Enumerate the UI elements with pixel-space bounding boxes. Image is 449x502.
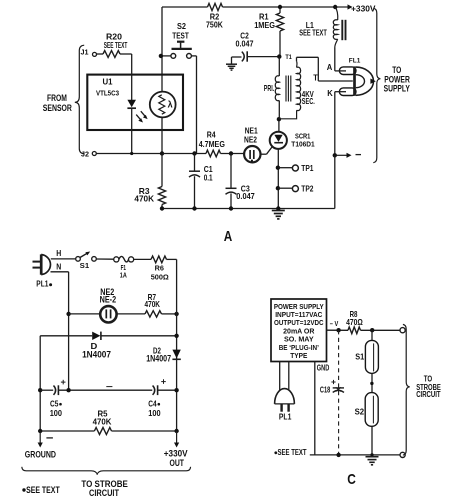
svg-text:N: N [56, 261, 61, 271]
node -V junction [336, 328, 340, 332]
node C1 bottom [192, 206, 196, 210]
label S1 C [355, 352, 364, 361]
svg-text:FL1: FL1 [349, 57, 361, 64]
label SEE TEXT C [274, 448, 306, 457]
svg-text:J1: J1 [81, 48, 89, 57]
label NE1 NE2 [244, 126, 258, 144]
polarity dash mark [106, 386, 112, 388]
label TEST [172, 30, 189, 40]
svg-text:SEE TEXT: SEE TEXT [104, 40, 128, 50]
svg-text:SEE TEXT: SEE TEXT [299, 28, 327, 38]
brace FROM SENSOR [75, 45, 84, 154]
label D2 1N4007 [146, 345, 171, 363]
arrow GROUND [38, 431, 43, 448]
svg-text:T106D1: T106D1 [291, 139, 315, 148]
terminal circle top [400, 328, 405, 333]
svg-text:470Ω: 470Ω [346, 317, 363, 327]
wire bottom rail section A [162, 208, 335, 210]
label R3 value [134, 186, 154, 204]
svg-text:500Ω: 500Ω [151, 273, 169, 282]
svg-text:CIRCUIT: CIRCUIT [89, 488, 119, 498]
node between tubes [370, 382, 373, 385]
wire R4 to NE1 [221, 153, 245, 155]
wire -V out [327, 329, 349, 331]
wire H to S1 [51, 258, 76, 260]
wire SCR anode up [278, 119, 280, 132]
connector J1 [81, 48, 97, 57]
LED light emission arrows [136, 111, 147, 122]
photocell of U1 [150, 92, 176, 118]
svg-text:TYPE: TYPE [290, 351, 307, 360]
label minus ground [46, 437, 53, 439]
brace to power supply [373, 8, 380, 162]
label power supply text [274, 302, 324, 360]
label S1 [80, 261, 90, 270]
wire F1 to R6 [134, 258, 151, 260]
connector J2 [81, 149, 96, 158]
label FL1 [349, 57, 361, 64]
svg-text:TO: TO [392, 65, 401, 75]
svg-text:GND: GND [317, 364, 330, 373]
wire SCR cathode down [277, 149, 279, 209]
node S1 top junction [370, 328, 374, 332]
label section A [224, 228, 233, 245]
svg-text:CIRCUIT: CIRCUIT [416, 389, 441, 399]
label A terminal [327, 62, 333, 72]
svg-text:– V: – V [330, 321, 339, 328]
label SEE TEXT B [22, 485, 60, 495]
svg-text:C18: C18 [320, 385, 331, 394]
svg-text:H: H [56, 248, 61, 258]
node photocell-R3 junction [160, 151, 164, 155]
svg-text:VTL5C3: VTL5C3 [96, 91, 119, 98]
node R4-C3 junction [229, 151, 233, 155]
svg-text:A: A [327, 62, 333, 72]
svg-text:470K: 470K [93, 416, 112, 426]
svg-text:+330V: +330V [351, 3, 376, 13]
label PL1 C [279, 411, 292, 421]
label L1 SEE TEXT [299, 20, 327, 38]
svg-text:1N4007: 1N4007 [82, 349, 111, 359]
wire top rail section A [162, 6, 337, 8]
node C1 top junction [192, 151, 196, 155]
label PRI [264, 83, 275, 93]
svg-text:C: C [347, 472, 356, 488]
label R4 value [199, 130, 225, 150]
thyristor SCR1 [270, 132, 287, 149]
wire S1 to S2 tube [371, 373, 373, 392]
wire R8 to terminal [361, 329, 401, 331]
svg-text:R6: R6 [155, 264, 164, 273]
wire sensor row to R4 [162, 153, 206, 155]
resistor R5 [94, 428, 111, 435]
resistor R7 [145, 311, 162, 317]
flashtube FL1 tip [370, 79, 375, 84]
label S2 C [355, 408, 365, 417]
svg-text:OUT: OUT [170, 458, 185, 469]
label 4KV SEC [302, 89, 315, 106]
wire plug leads C [280, 362, 289, 391]
resistor R2 [208, 3, 223, 10]
wire NE1 to SCR gate [261, 147, 273, 154]
node rail NE2 junction [174, 312, 178, 316]
label TO STROBE CIRCUIT B [81, 479, 127, 498]
capacitor C2 [232, 51, 280, 61]
wire left vertical from top rail to photocell [161, 7, 163, 92]
label R2 value [206, 11, 223, 29]
node R3 bottom [160, 206, 164, 210]
node rail D junction [174, 334, 178, 338]
label C1 value [204, 164, 213, 182]
wire negative down to ground rail [334, 155, 336, 208]
svg-text:NE2: NE2 [244, 135, 258, 144]
switch S1 [76, 252, 97, 262]
svg-text:0.1: 0.1 [204, 172, 213, 182]
flashtube FL1 envelope inner [356, 75, 365, 88]
resistor R8 [348, 327, 361, 334]
node +330 corner [174, 429, 178, 433]
label -V [330, 321, 339, 328]
label section C [347, 472, 356, 488]
polarity plus C5 [61, 380, 66, 385]
wire NE2 row left [69, 313, 101, 315]
wire R20 down to LED [131, 54, 133, 100]
node C3 bottom [229, 206, 233, 210]
svg-text:1MEG: 1MEG [254, 20, 275, 30]
label C2 value [236, 30, 254, 48]
ground section C [366, 457, 379, 465]
capacitor C3 [226, 154, 237, 209]
wire S2 to C1 node [196, 56, 198, 154]
svg-text:PL1: PL1 [279, 411, 292, 421]
wire R6 to right rail [167, 258, 177, 260]
dashed negative line [338, 330, 340, 455]
brace to strobe circuit C [403, 324, 410, 455]
photo tube S2 [365, 393, 378, 427]
wire C5 row left [40, 389, 53, 391]
brace to strobe circuit B [22, 467, 191, 475]
svg-text:U1: U1 [103, 76, 113, 86]
test point TP1 [276, 164, 314, 173]
label N terminal [56, 261, 61, 271]
node LED-J2 junction [130, 152, 133, 155]
label R8 value [346, 309, 363, 327]
wire GND down [314, 362, 316, 455]
svg-text:100: 100 [50, 408, 63, 418]
svg-text:K: K [327, 88, 333, 98]
wire C4 to rail [158, 389, 177, 391]
label R7 value [145, 292, 161, 309]
LED inside U1 [127, 100, 136, 108]
label F1 1A [120, 263, 127, 279]
svg-text:0.047: 0.047 [236, 39, 254, 49]
label S2 TEST [177, 21, 186, 31]
capacitor C1 [189, 154, 200, 209]
wire R7 to rail [162, 313, 177, 315]
polarity plus C4 [161, 379, 166, 384]
svg-text:TEST: TEST [172, 30, 189, 40]
capacitor C4 [153, 385, 158, 395]
flashtube FL1 trigger bar [353, 66, 356, 95]
diode D [92, 332, 101, 340]
wire J2 row [96, 153, 162, 155]
svg-text:470K: 470K [134, 194, 154, 204]
wire D row [40, 335, 176, 337]
node ground corner [38, 429, 42, 433]
label C3 value [236, 183, 255, 201]
ground main section A [272, 211, 285, 219]
label TO STROBE CIRCUIT C [416, 373, 441, 399]
neon lamp NE1 [244, 146, 260, 162]
flashtube FL1 anode electrode [335, 67, 356, 75]
svg-text:S2: S2 [177, 21, 186, 31]
node negative junction [333, 153, 337, 157]
label +330V OUT [164, 449, 188, 469]
svg-text:GROUND: GROUND [25, 450, 56, 461]
label C4 value [148, 399, 161, 418]
wire LED cathode down to J2 row [131, 108, 133, 153]
label R20 SEE TEXT [104, 32, 128, 50]
capacitor C18 [333, 388, 344, 393]
wire N down rail [51, 272, 69, 390]
svg-text:SEC.: SEC. [302, 96, 315, 106]
transformer T1 primary [275, 57, 279, 119]
label TO POWER SUPPLY [384, 65, 411, 93]
svg-text:100: 100 [148, 408, 161, 418]
svg-text:750K: 750K [206, 20, 223, 30]
wire L1 to flashtube anode [334, 48, 336, 71]
wire left rail section B [39, 336, 41, 431]
wire bottom rail section C [310, 454, 400, 456]
svg-text:PRI.: PRI. [264, 83, 275, 93]
svg-text:A: A [224, 228, 233, 245]
node rail C4 junction [174, 388, 178, 392]
svg-text:S1: S1 [355, 352, 364, 361]
svg-text:NE-2: NE-2 [100, 294, 117, 304]
node transformer bottom junction [277, 117, 281, 121]
svg-text:S2: S2 [355, 408, 365, 417]
test point TP2 [276, 185, 314, 194]
label R6 value [151, 264, 169, 282]
label D 1N4007 [82, 341, 111, 359]
wire rail to S1 tube [371, 330, 373, 340]
photo tube S1 [365, 340, 378, 373]
svg-text:T: T [313, 73, 318, 83]
wire C5 to C4 [58, 389, 152, 391]
label U1 VTL5C3 [96, 76, 119, 97]
resistor R3 [158, 154, 165, 209]
flashtube FL1 envelope outer [356, 67, 374, 95]
wire right rail section B [176, 259, 178, 431]
wire bottom row section B [40, 430, 176, 432]
label GND [317, 364, 330, 373]
svg-text:J2: J2 [81, 149, 89, 158]
node +330V junction [333, 5, 337, 9]
node left rail C5 junction [38, 388, 42, 392]
terminal circle bottom [400, 452, 405, 457]
svg-text:0.047: 0.047 [236, 191, 255, 201]
plug PL1 section C [275, 389, 295, 412]
wire S2 to bottom rail [371, 426, 373, 455]
svg-text:NE1: NE1 [245, 126, 259, 135]
label FROM SENSOR [43, 93, 73, 113]
resistor R1 [276, 7, 283, 57]
label R1 value [254, 11, 275, 30]
svg-text:1A: 1A [120, 270, 127, 279]
svg-text:λ: λ [168, 100, 173, 110]
label NE2 value [100, 287, 117, 305]
svg-text:PL1: PL1 [36, 280, 49, 289]
svg-text:4.7MEG: 4.7MEG [199, 139, 225, 149]
arrow +330V [337, 3, 376, 13]
capacitor C5 [54, 385, 59, 395]
power supply box [271, 299, 327, 362]
label R5 value [93, 408, 112, 426]
svg-text:SUPPLY: SUPPLY [384, 83, 410, 93]
svg-text:1N4007: 1N4007 [146, 353, 171, 363]
arrow to power supply negative [337, 153, 362, 158]
svg-text:TP1: TP1 [301, 164, 314, 173]
resistor R6 [151, 256, 167, 263]
wire photocell bottom to row [161, 117, 163, 153]
wire flashtube cathode down [334, 92, 336, 156]
asterisk C18 [336, 387, 341, 391]
inductor L1 [333, 7, 338, 48]
label GROUND [25, 450, 56, 461]
label H terminal [56, 248, 61, 258]
switch S2 [159, 42, 197, 59]
label C5 value [50, 399, 63, 418]
polarity plus C18 [331, 380, 335, 384]
node N NE2 junction [66, 312, 70, 316]
svg-text:SEE TEXT: SEE TEXT [26, 485, 60, 495]
svg-text:T1: T1 [285, 54, 292, 61]
svg-text:SENSOR: SENSOR [43, 103, 73, 113]
node SCR cathode bottom [276, 206, 280, 210]
label PL1 B [36, 280, 52, 289]
transformer T1 secondary [279, 57, 318, 119]
flashtube FL1 cathode electrode [335, 88, 356, 96]
resistor R4 [206, 150, 221, 157]
svg-text:R4: R4 [207, 130, 216, 140]
svg-text:TP2: TP2 [301, 185, 314, 194]
svg-text:SEE TEXT: SEE TEXT [278, 448, 307, 457]
arrow +330V OUT [174, 431, 179, 448]
label T terminal [313, 73, 318, 83]
transformer T1 core [286, 76, 291, 102]
node ground junction C [370, 453, 373, 456]
wire trigger T to flashtube [318, 57, 353, 81]
diode D2 [172, 350, 180, 360]
neon lamp NE2 section B [100, 306, 116, 322]
wire S1 to F1 [96, 258, 113, 260]
resistor R20 [97, 51, 132, 58]
node N rail bottom junction [66, 388, 70, 392]
svg-text:S1: S1 [80, 261, 90, 270]
transformer L1 core [342, 20, 345, 40]
svg-text:FROM: FROM [47, 93, 67, 103]
node dashed bottom junction [336, 453, 340, 457]
label SCR1 T106D1 [291, 131, 315, 148]
node R1 top junction [278, 5, 282, 9]
node T1 top junction [277, 54, 292, 61]
label K terminal [327, 88, 333, 98]
plug PL1 section B [33, 254, 51, 274]
label C18 [320, 385, 331, 394]
fuse F1 [114, 256, 134, 262]
svg-text:470K: 470K [145, 299, 161, 309]
wire NE2 to R7 [117, 313, 146, 315]
ground for C2 [226, 57, 237, 70]
op-amp U1 box outline [87, 75, 183, 130]
